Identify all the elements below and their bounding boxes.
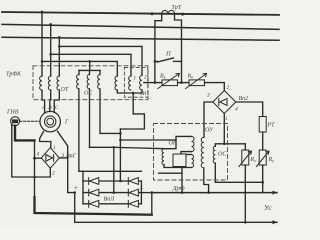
- wire tap phase B: [50, 25, 52, 77]
- wire OS(dro) top to Ro: [215, 144, 245, 147]
- wire minus out: [141, 192, 151, 194]
- coil w2: [140, 76, 142, 90]
- OR core rect: [173, 154, 186, 167]
- dashed sub-box 6I: [124, 67, 147, 97]
- coil OT1: [40, 76, 42, 90]
- line Us lower: [75, 221, 277, 223]
- resistor Rk: [162, 80, 178, 86]
- wire brush right: [58, 131, 75, 192]
- row 3: [83, 203, 141, 205]
- bus line 3: [2, 37, 279, 40]
- coil OU (dro): [201, 137, 204, 168]
- wire brush left: [40, 132, 51, 148]
- wire VpG-4 tap: [35, 157, 42, 159]
- diodes: [89, 178, 139, 208]
- wire feeder 3: [42, 61, 117, 76]
- wire OS top bus: [89, 61, 91, 70]
- wire Vp2-1 down: [223, 114, 225, 144]
- OR transformer upper right coil: [192, 136, 195, 151]
- wire RT to Ru: [262, 132, 264, 150]
- wire phase A to machine: [42, 90, 45, 112]
- top edge: [79, 170, 141, 172]
- bus line 2: [2, 24, 279, 29]
- resistor Ru: [259, 150, 266, 165]
- OR coil-rect links: [181, 152, 192, 154]
- wire Rv to Vp2: [205, 83, 225, 91]
- wire TrT secondary loop right: [175, 14, 182, 82]
- wire to OR entry: [90, 147, 165, 148]
- bus left: [82, 171, 84, 204]
- wire phase C to machine: [54, 90, 59, 112]
- row 2: [83, 192, 141, 194]
- wire plus out: [74, 193, 76, 223]
- coil OT3: [57, 76, 59, 90]
- resistor RT: [259, 117, 266, 133]
- wire Rk-Rv: [178, 82, 190, 84]
- resistor Ro: [242, 150, 249, 165]
- dashed box DrO: [154, 124, 228, 181]
- wire Vp2-3 to OU: [204, 102, 213, 137]
- wire TrT secondary loop left: [155, 14, 162, 82]
- wire OS3 down: [100, 89, 120, 133]
- wire Ru down: [262, 165, 264, 193]
- wire to OR elbow: [120, 139, 176, 141]
- wire to VpL row1: [119, 129, 121, 181]
- shaft link: [20, 120, 40, 122]
- rectifier Vp2 diamond: [213, 91, 236, 114]
- wire to VpL row2: [113, 147, 115, 192]
- wire Ro top: [244, 144, 246, 150]
- wire w2 tap to Rk: [144, 82, 162, 84]
- OR elbow wire: [164, 136, 192, 148]
- wire OR out: [181, 168, 183, 193]
- wire feeder 1: [59, 46, 142, 75]
- bus line 1: [2, 12, 279, 15]
- wire GNV thick: [15, 126, 35, 141]
- rectifier VpG diamond: [41, 148, 59, 169]
- transformer TrT primary bumps: [162, 10, 175, 14]
- OR lower right coil: [192, 155, 194, 168]
- wire tap phase C: [58, 38, 60, 77]
- wire zigzag from 6I: [120, 93, 144, 129]
- wire OS(dro) bottom: [215, 163, 262, 182]
- resistor Rv: [189, 80, 205, 86]
- coil w1: [129, 76, 131, 90]
- OR left coil: [162, 149, 164, 165]
- dashed box TrFK: [33, 66, 148, 100]
- wire OS2 down: [89, 89, 91, 147]
- wire w1w2 bottoms: [117, 90, 142, 93]
- bus right: [140, 181, 142, 204]
- coil OS3: [98, 75, 100, 89]
- switch P: [155, 60, 157, 62]
- wire Vp2-4 to RT: [236, 102, 263, 117]
- machine G circles: [40, 111, 60, 131]
- coil OS (dro): [213, 146, 215, 163]
- OR bottom ties: [164, 165, 192, 168]
- coil aux: [115, 76, 117, 90]
- coil OT2: [48, 76, 50, 90]
- pilot exciter GNV: [11, 117, 20, 126]
- wire neg rail: [34, 140, 36, 198]
- coil OS1: [77, 75, 79, 89]
- coil OS2: [87, 75, 89, 89]
- wire OU bottom: [204, 168, 209, 193]
- wire tap phase A: [41, 12, 43, 76]
- line Us upper: [152, 192, 277, 194]
- wire phase B to machine: [49, 90, 52, 111]
- wire VpG-3 tap: [59, 157, 67, 159]
- wire GNV left terminal: [12, 124, 51, 177]
- wire feeder 2: [51, 54, 131, 76]
- row 1: [83, 180, 141, 182]
- wire Ro down: [244, 165, 246, 222]
- wire OS1 down: [78, 89, 80, 171]
